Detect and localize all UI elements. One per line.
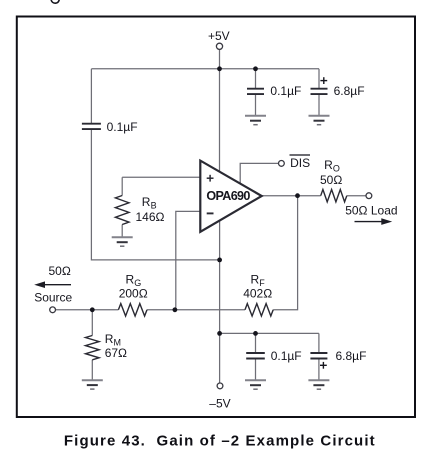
terminal: -5V supply — [217, 383, 223, 389]
svg-text:R: R — [142, 195, 151, 209]
svg-text:+5V: +5V — [208, 29, 230, 43]
ground (top 6.8uF) — [309, 116, 330, 125]
wire: +5V terminal to op-amp V+ pin — [219, 49, 221, 172]
arrow: 50 ohm load direction (right) — [355, 218, 393, 225]
terminal: DIS pin — [279, 161, 285, 167]
op-amp plus input marker — [207, 175, 214, 182]
junction: rail / top 0.1uF — [253, 66, 258, 71]
wire: RB top lead — [121, 177, 123, 195]
ground (bottom 6.8uF) — [308, 380, 329, 389]
wire: +5V rail (top horizontal) — [91, 68, 319, 70]
op-amp minus input marker — [207, 212, 214, 214]
svg-text:R: R — [324, 158, 333, 172]
svg-text:–5V: –5V — [209, 397, 230, 411]
resistor RF zigzag — [245, 304, 273, 316]
capacitor C3 0.1uF left bypass plates — [82, 123, 101, 125]
junction: output node — [295, 193, 300, 198]
svg-text:Figure 43. Gain of –2 Example: Figure 43. Gain of –2 Example Circuit — [64, 433, 375, 450]
svg-text:146Ω: 146Ω — [136, 210, 165, 224]
svg-text:200Ω: 200Ω — [119, 287, 148, 301]
wire: RB bottom lead to ground — [121, 225, 123, 238]
resistor RG zigzag — [118, 304, 147, 316]
wire: noninverting input to RB — [122, 176, 200, 178]
plus polarity mark (top 6.8uF) — [320, 77, 327, 84]
wire: op-amp output to RO — [262, 195, 321, 197]
wire: top 0.1uF cap leads — [255, 69, 257, 88]
svg-text:6.8µF: 6.8µF — [334, 84, 365, 98]
wire: top 6.8uF cap leads — [318, 69, 320, 88]
plus polarity mark (bottom 6.8uF) — [320, 362, 327, 369]
svg-text:DIS: DIS — [290, 156, 310, 170]
op-amp U1 OPA690 triangle — [200, 161, 261, 232]
junction: bypass cap to V- line — [217, 258, 222, 263]
wire: RG to RF (summing node) — [147, 309, 245, 311]
resistor RB zigzag — [115, 196, 129, 225]
wire: bottom 0.1uF cap leads — [255, 333, 257, 352]
border frame of figure — [17, 17, 415, 418]
wire: inverting input — [176, 211, 201, 309]
svg-text:R: R — [251, 272, 260, 286]
terminal: source input — [50, 307, 56, 313]
capacitor C5 6.8uF bottom plates — [310, 352, 327, 354]
svg-text:0.1µF: 0.1µF — [271, 349, 302, 363]
wire: bottom 6.8uF cap leads — [318, 333, 320, 352]
junction: V+ rail / supply line — [217, 66, 222, 71]
svg-text:402Ω: 402Ω — [243, 287, 272, 301]
svg-text:0.1µF: 0.1µF — [107, 120, 138, 134]
wire: RO to load terminal — [347, 195, 366, 197]
junction: V- rail / bottom 0.1uF — [253, 331, 258, 336]
svg-text:Source: Source — [34, 291, 72, 305]
capacitor C1 0.1uF top plates — [247, 88, 264, 90]
wire: source terminal to RG — [56, 309, 119, 311]
svg-text:0.1µF: 0.1µF — [270, 84, 301, 98]
wire: RM top lead — [91, 310, 93, 336]
svg-text:50Ω: 50Ω — [49, 264, 71, 278]
wire: feedback from output node down to RF — [273, 196, 297, 310]
svg-text:O: O — [333, 163, 340, 173]
svg-text:50Ω Load: 50Ω Load — [345, 203, 397, 217]
resistor RO zigzag — [321, 190, 347, 202]
ground (RB) — [112, 237, 133, 246]
wire: DIS pin stub — [240, 163, 278, 183]
junction: summing node (RG/RF/inverting input) — [173, 307, 178, 312]
wire: RM bottom lead to ground — [91, 360, 93, 380]
ground (RM) — [82, 380, 103, 389]
svg-text:R: R — [126, 272, 135, 286]
cropped text fragment (descender of letter above frame) — [51, 0, 59, 3]
wire: -5V rail (bottom horizontal) — [220, 332, 319, 334]
resistor RM zigzag — [86, 336, 100, 360]
wire: left bypass branch (rail down through 0.1uF to V- node) — [90, 69, 92, 123]
ground (bottom 0.1uF) — [245, 380, 266, 389]
capacitor C4 0.1uF bottom plates — [246, 352, 265, 354]
terminal: output to load — [366, 193, 372, 199]
svg-text:R: R — [105, 332, 114, 346]
junction: source / RM node — [90, 307, 95, 312]
capacitor C2 6.8uF top plates — [311, 88, 328, 90]
wire: op-amp V- pin down to -5V terminal — [219, 221, 221, 383]
svg-text:67Ω: 67Ω — [105, 346, 127, 360]
arrow: 50 ohm source direction (left) — [34, 281, 71, 288]
svg-text:50Ω: 50Ω — [320, 173, 342, 187]
terminal: +5V supply — [216, 43, 222, 49]
junction: V- rail / supply line — [217, 331, 222, 336]
ground (top 0.1uF) — [245, 116, 266, 125]
svg-text:OPA690: OPA690 — [206, 189, 250, 203]
svg-text:6.8µF: 6.8µF — [336, 349, 367, 363]
